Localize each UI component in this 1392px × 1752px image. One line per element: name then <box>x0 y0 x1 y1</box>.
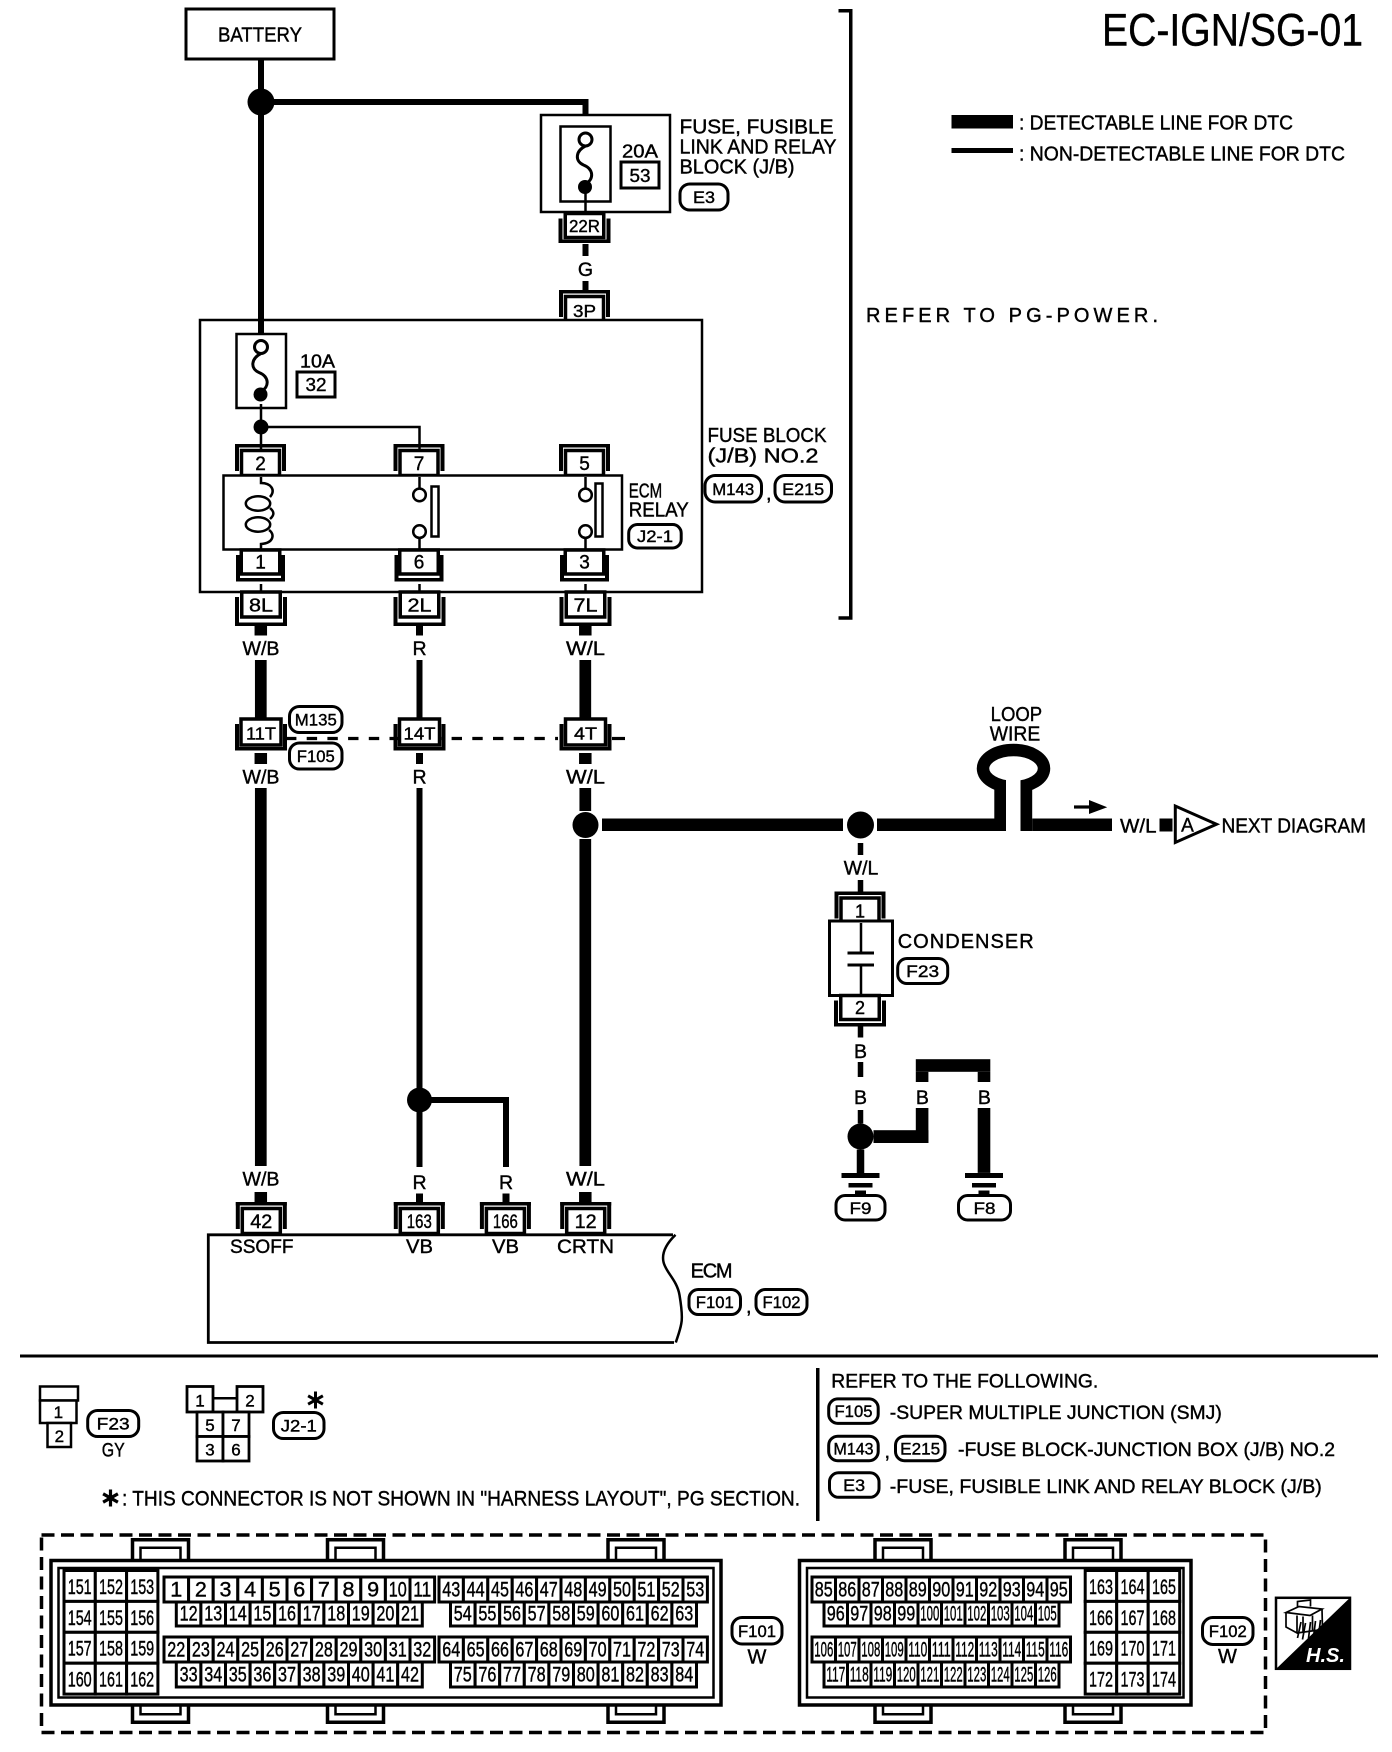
pin row 106-116 <box>812 1637 836 1662</box>
svg-text:CONDENSER: CONDENSER <box>898 931 1034 953</box>
svg-text:110: 110 <box>908 1639 927 1662</box>
svg-text:6: 6 <box>414 553 425 574</box>
svg-text:108: 108 <box>861 1639 880 1662</box>
svg-text:169: 169 <box>1089 1638 1113 1661</box>
svg-text:159: 159 <box>130 1638 154 1661</box>
svg-text:166: 166 <box>493 1212 518 1233</box>
svg-text:35: 35 <box>229 1664 247 1687</box>
svg-text:B: B <box>854 1087 867 1109</box>
wire stub above 3P <box>583 281 589 293</box>
pin row 22-32 <box>164 1637 189 1662</box>
svg-text:51: 51 <box>637 1579 655 1602</box>
bracket refer to pg-power <box>839 11 851 618</box>
svg-text:58: 58 <box>552 1603 570 1626</box>
svg-text:82: 82 <box>626 1664 644 1687</box>
svg-text:-SUPER MULTIPLE JUNCTION (SMJ): -SUPER MULTIPLE JUNCTION (SMJ) <box>890 1403 1222 1424</box>
connector E3 oval <box>680 184 728 210</box>
svg-text:90: 90 <box>932 1579 950 1602</box>
wire B jumper U shape <box>874 1130 929 1143</box>
loop wire <box>983 750 1044 787</box>
svg-text:80: 80 <box>577 1664 595 1687</box>
svg-text:A: A <box>1181 816 1194 837</box>
wire stub below condenser <box>858 1027 864 1038</box>
svg-text:,: , <box>766 483 772 505</box>
pin row 96-105 <box>824 1602 848 1626</box>
svg-text:F105: F105 <box>297 747 335 766</box>
svg-text:B: B <box>916 1087 929 1109</box>
connector 163 <box>394 1202 445 1206</box>
svg-text:13: 13 <box>204 1603 222 1626</box>
connector 2 <box>841 996 880 1020</box>
svg-text:54: 54 <box>454 1603 472 1626</box>
svg-text:20A: 20A <box>622 142 658 162</box>
svg-text:W/L: W/L <box>566 767 605 789</box>
ECM box <box>663 1235 682 1343</box>
connector 3 <box>565 550 604 574</box>
svg-text:B: B <box>978 1087 991 1109</box>
svg-text:6: 6 <box>231 1441 240 1460</box>
svg-text:,: , <box>885 1441 891 1463</box>
svg-text:7L: 7L <box>574 596 598 616</box>
connector 6 <box>400 550 439 574</box>
svg-text:166: 166 <box>1089 1607 1113 1630</box>
pin row 43-53 <box>439 1577 463 1602</box>
svg-text:RELAY: RELAY <box>629 500 689 522</box>
junction node R <box>407 1088 432 1113</box>
svg-text:W/B: W/B <box>243 638 280 660</box>
svg-text:F102: F102 <box>763 1293 801 1312</box>
svg-text:109: 109 <box>885 1639 904 1662</box>
svg-text:103: 103 <box>991 1603 1010 1626</box>
svg-text:91: 91 <box>956 1579 974 1602</box>
svg-text:39: 39 <box>327 1664 345 1687</box>
wire stub 12 <box>579 1192 592 1203</box>
svg-text:118: 118 <box>850 1664 869 1687</box>
svg-text:61: 61 <box>626 1603 644 1626</box>
connector M135 oval <box>290 707 343 733</box>
fuse number 53 box <box>621 162 659 188</box>
svg-text:99: 99 <box>897 1603 915 1626</box>
wire battery bus horizontal <box>261 99 589 105</box>
svg-text:VB: VB <box>492 1236 519 1258</box>
relay contact pins 7-6 <box>418 477 421 488</box>
connector F105 oval <box>829 1399 879 1424</box>
svg-text:F101: F101 <box>738 1622 776 1641</box>
connector J2-1 oval <box>629 525 682 549</box>
svg-text:46: 46 <box>515 1579 533 1602</box>
svg-text:153: 153 <box>130 1576 154 1599</box>
svg-text:12: 12 <box>575 1212 597 1233</box>
svg-text:19: 19 <box>352 1603 370 1626</box>
wire W/L down <box>579 788 591 811</box>
wire stub 8L <box>255 626 267 636</box>
tab <box>1065 1540 1121 1561</box>
svg-text:92: 92 <box>979 1579 997 1602</box>
svg-text:M143: M143 <box>712 480 754 499</box>
svg-text:W/L: W/L <box>1120 816 1157 838</box>
svg-text:-FUSE, FUSIBLE LINK AND RELAY: -FUSE, FUSIBLE LINK AND RELAY BLOCK (J/B… <box>890 1477 1322 1498</box>
connector 2L <box>400 592 439 617</box>
svg-text:R: R <box>412 767 426 789</box>
svg-text:3: 3 <box>220 1579 232 1602</box>
svg-text:10: 10 <box>389 1579 407 1602</box>
svg-text:74: 74 <box>686 1639 704 1662</box>
svg-text:122: 122 <box>944 1664 963 1687</box>
connector E3 oval <box>830 1473 880 1498</box>
svg-text:7: 7 <box>231 1416 240 1435</box>
svg-text:83: 83 <box>651 1664 669 1687</box>
tab <box>608 1540 664 1561</box>
svg-text:81: 81 <box>601 1664 619 1687</box>
svg-text:22R: 22R <box>569 216 600 236</box>
svg-text:FUSE, FUSIBLE: FUSE, FUSIBLE <box>680 117 834 139</box>
svg-text:59: 59 <box>577 1603 595 1626</box>
connector F23 oval <box>88 1411 139 1437</box>
svg-text:LINK AND RELAY: LINK AND RELAY <box>680 137 837 159</box>
svg-text:W/B: W/B <box>243 1169 280 1191</box>
pin row 1-11 <box>164 1577 189 1602</box>
svg-text:(J/B) NO.2: (J/B) NO.2 <box>708 446 819 468</box>
connector 12 <box>560 1202 611 1206</box>
svg-text:14: 14 <box>229 1603 247 1626</box>
wires pins to block edge <box>260 584 263 592</box>
svg-text:171: 171 <box>1152 1638 1176 1661</box>
svg-text:17: 17 <box>303 1603 321 1626</box>
svg-text:106: 106 <box>814 1639 833 1662</box>
svg-text:1: 1 <box>170 1579 182 1602</box>
svg-text:6: 6 <box>293 1579 305 1602</box>
svg-text:12: 12 <box>180 1603 198 1626</box>
wire W/L horizontal <box>602 819 843 832</box>
svg-text:R: R <box>412 1172 426 1194</box>
svg-text:E215: E215 <box>782 480 824 499</box>
svg-text:BLOCK (J/B): BLOCK (J/B) <box>680 157 795 179</box>
separator line <box>20 1355 1378 1358</box>
svg-text:BATTERY: BATTERY <box>218 25 302 47</box>
svg-text:F102: F102 <box>1209 1622 1247 1641</box>
H.S. logo <box>1276 1598 1350 1669</box>
pin row 54-63 <box>451 1602 476 1626</box>
wire stub below 14T <box>416 753 423 764</box>
svg-text:1: 1 <box>255 553 266 574</box>
svg-text:96: 96 <box>827 1603 845 1626</box>
ground F9 <box>842 1173 880 1178</box>
tab <box>608 1703 664 1722</box>
svg-text:45: 45 <box>491 1579 509 1602</box>
junction node W/L <box>573 812 599 838</box>
svg-text:33: 33 <box>180 1664 198 1687</box>
svg-text:7: 7 <box>318 1579 330 1602</box>
arrow <box>1074 805 1092 808</box>
svg-text:W: W <box>748 1647 767 1669</box>
svg-text:60: 60 <box>601 1603 619 1626</box>
junction node battery <box>248 89 275 116</box>
svg-text:16: 16 <box>278 1603 296 1626</box>
connector F101 oval <box>732 1618 782 1645</box>
wire fuse to 22R <box>584 193 587 215</box>
connector 22R <box>565 214 604 238</box>
svg-text:73: 73 <box>662 1639 680 1662</box>
svg-text:62: 62 <box>651 1603 669 1626</box>
svg-text:155: 155 <box>99 1607 123 1630</box>
connector icon <box>1286 1600 1323 1640</box>
svg-text:56: 56 <box>503 1603 521 1626</box>
connector 3P <box>559 290 610 294</box>
svg-text:77: 77 <box>503 1664 521 1687</box>
svg-text:36: 36 <box>253 1664 271 1687</box>
svg-text:W/L: W/L <box>566 1169 605 1191</box>
svg-text:125: 125 <box>1014 1664 1033 1687</box>
svg-text:1: 1 <box>54 1403 63 1422</box>
fuse 20A 53 <box>561 127 611 202</box>
svg-text:53: 53 <box>686 1579 704 1602</box>
svg-text:173: 173 <box>1121 1669 1145 1692</box>
svg-text:156: 156 <box>130 1607 154 1630</box>
svg-text:G: G <box>578 259 593 281</box>
svg-text:1: 1 <box>855 902 865 922</box>
svg-text:151: 151 <box>68 1576 92 1599</box>
wire junction to pin 2 <box>260 427 263 451</box>
svg-text:5: 5 <box>579 454 590 475</box>
svg-text:170: 170 <box>1121 1638 1145 1661</box>
svg-text:43: 43 <box>442 1579 460 1602</box>
svg-text:64: 64 <box>442 1639 460 1662</box>
svg-text:161: 161 <box>99 1669 123 1692</box>
svg-text:M135: M135 <box>295 711 337 730</box>
junction node condenser <box>847 812 874 839</box>
relay contact pins 5-3 <box>584 477 587 488</box>
svg-text:37: 37 <box>278 1664 296 1687</box>
svg-text:21: 21 <box>401 1603 419 1626</box>
svg-text:53: 53 <box>630 166 651 186</box>
wire stub 42 <box>255 1192 267 1203</box>
svg-text:4T: 4T <box>574 724 597 744</box>
svg-text:42: 42 <box>401 1664 419 1687</box>
svg-text:F101: F101 <box>696 1293 734 1312</box>
svg-text:9: 9 <box>367 1579 379 1602</box>
connector M143 oval <box>705 476 762 503</box>
svg-text:152: 152 <box>99 1576 123 1599</box>
svg-text:174: 174 <box>1152 1669 1176 1692</box>
wire battery down <box>258 59 264 95</box>
svg-text:47: 47 <box>540 1579 558 1602</box>
svg-text:14T: 14T <box>404 724 436 744</box>
relay coil <box>261 477 273 497</box>
svg-text:167: 167 <box>1121 1607 1145 1630</box>
svg-text:57: 57 <box>528 1603 546 1626</box>
svg-text:EC-IGN/SG-01: EC-IGN/SG-01 <box>1102 5 1363 56</box>
wire R to 14T <box>417 660 423 720</box>
connector J2-1 symbol <box>213 1397 237 1400</box>
svg-text:101: 101 <box>944 1603 963 1626</box>
svg-text:J2-1: J2-1 <box>637 527 673 546</box>
svg-text:115: 115 <box>1026 1639 1045 1662</box>
tab <box>133 1540 189 1561</box>
svg-text:F23: F23 <box>97 1415 130 1434</box>
tab <box>328 1540 384 1561</box>
svg-text:31: 31 <box>389 1639 407 1662</box>
pin grid 163-174 <box>1085 1571 1117 1602</box>
connector F23 symbol <box>40 1387 78 1401</box>
svg-text:20: 20 <box>376 1603 394 1626</box>
svg-text:11T: 11T <box>246 724 276 744</box>
svg-text:: THIS CONNECTOR IS NOT SHOWN: : THIS CONNECTOR IS NOT SHOWN IN "HARNES… <box>122 1488 800 1511</box>
svg-text:32: 32 <box>413 1639 431 1662</box>
svg-text:NEXT DIAGRAM: NEXT DIAGRAM <box>1222 816 1367 838</box>
svg-text:11: 11 <box>413 1579 431 1602</box>
svg-text:93: 93 <box>1003 1579 1021 1602</box>
svg-text:79: 79 <box>552 1664 570 1687</box>
wire stub 2L <box>416 626 423 636</box>
svg-text:,: , <box>746 1296 752 1318</box>
wire label B with bg <box>910 1082 934 1108</box>
connector 7 <box>394 444 445 448</box>
svg-text:E215: E215 <box>900 1440 940 1459</box>
svg-text:W/L: W/L <box>844 858 879 880</box>
svg-text:105: 105 <box>1038 1603 1057 1626</box>
svg-text:66: 66 <box>491 1639 509 1662</box>
connector 5 <box>559 444 610 448</box>
connector 7L <box>566 592 605 617</box>
svg-text:W/B: W/B <box>243 767 280 789</box>
svg-text:55: 55 <box>478 1603 496 1626</box>
connector 11T <box>241 719 281 745</box>
svg-text:48: 48 <box>564 1579 582 1602</box>
svg-text:163: 163 <box>407 1212 432 1233</box>
wire W/L to next diagram <box>1032 819 1112 832</box>
tab <box>875 1703 931 1722</box>
wire stub to condenser <box>858 880 864 892</box>
pin row 85-95 <box>812 1577 836 1602</box>
wire R down <box>417 1112 423 1167</box>
svg-text:F8: F8 <box>974 1199 996 1218</box>
svg-text:27: 27 <box>290 1639 308 1662</box>
wire stub below node <box>858 843 864 855</box>
svg-text:FUSE BLOCK: FUSE BLOCK <box>708 425 828 447</box>
fuse 10A 32 <box>237 334 287 408</box>
svg-text:87: 87 <box>862 1579 880 1602</box>
svg-text:117: 117 <box>826 1664 845 1687</box>
svg-text:44: 44 <box>467 1579 485 1602</box>
svg-text:B: B <box>854 1041 867 1063</box>
ECM relay box J2-1 <box>224 476 623 550</box>
tab <box>1065 1703 1121 1722</box>
svg-text:2: 2 <box>255 454 266 475</box>
svg-text:160: 160 <box>68 1669 92 1692</box>
wire branch to pin 7 <box>261 427 420 451</box>
wire dash <box>858 1062 864 1077</box>
svg-text:W: W <box>1218 1646 1237 1668</box>
svg-text:30: 30 <box>364 1639 382 1662</box>
svg-text:78: 78 <box>528 1664 546 1687</box>
wire W/B long <box>255 788 267 1166</box>
wire dash <box>858 1110 864 1124</box>
svg-text:164: 164 <box>1121 1576 1145 1599</box>
wire stub 7L <box>579 626 592 636</box>
connector 42 <box>236 1202 287 1206</box>
svg-text:29: 29 <box>340 1639 358 1662</box>
svg-text:88: 88 <box>885 1579 903 1602</box>
tab <box>328 1703 384 1722</box>
svg-text:72: 72 <box>637 1639 655 1662</box>
svg-text:WIRE: WIRE <box>990 723 1041 746</box>
star mark <box>308 1392 323 1409</box>
connector 14T <box>400 719 440 745</box>
legend detectable line <box>952 115 1014 129</box>
svg-text:116: 116 <box>1049 1639 1068 1662</box>
svg-text:123: 123 <box>967 1664 986 1687</box>
svg-text:86: 86 <box>838 1579 856 1602</box>
svg-text:5: 5 <box>205 1416 214 1435</box>
wire battery into 10A fuse <box>258 102 264 334</box>
ground F8 <box>965 1173 1003 1178</box>
node marker square <box>1160 819 1173 832</box>
svg-text:65: 65 <box>467 1639 485 1662</box>
svg-text:68: 68 <box>540 1639 558 1662</box>
svg-text:2: 2 <box>245 1392 254 1411</box>
svg-text:52: 52 <box>662 1579 680 1602</box>
svg-text:10A: 10A <box>300 352 335 372</box>
pin row 12-21 <box>176 1602 201 1626</box>
svg-text:25: 25 <box>241 1639 259 1662</box>
connector E215 oval <box>775 476 832 503</box>
svg-text:CRTN: CRTN <box>557 1236 614 1258</box>
svg-text:97: 97 <box>850 1603 868 1626</box>
wire R long <box>417 788 423 1094</box>
tab <box>875 1540 931 1561</box>
svg-text:E3: E3 <box>693 188 715 207</box>
svg-text:REFER TO THE FOLLOWING.: REFER TO THE FOLLOWING. <box>831 1372 1098 1393</box>
svg-text:76: 76 <box>478 1664 496 1687</box>
svg-text:95: 95 <box>1050 1579 1068 1602</box>
svg-text:3P: 3P <box>573 301 596 321</box>
wire R branch to 166 <box>420 1100 507 1167</box>
svg-text:50: 50 <box>613 1579 631 1602</box>
node A triangle <box>1175 806 1216 843</box>
svg-text:34: 34 <box>204 1664 222 1687</box>
connector 4T <box>566 719 606 745</box>
svg-text:124: 124 <box>991 1664 1010 1687</box>
connector J2-1 oval <box>274 1413 325 1439</box>
junction node ground <box>848 1124 874 1150</box>
svg-text:J2-1: J2-1 <box>281 1417 317 1436</box>
svg-text:104: 104 <box>1014 1603 1033 1626</box>
svg-text:2: 2 <box>55 1427 64 1446</box>
connector F101 oval <box>689 1290 741 1315</box>
legend non-detectable line <box>952 148 1014 153</box>
svg-text:: DETECTABLE LINE FOR DTC: : DETECTABLE LINE FOR DTC <box>1019 113 1293 135</box>
svg-text:GY: GY <box>102 1440 125 1462</box>
svg-text:7: 7 <box>414 454 425 475</box>
svg-text:113: 113 <box>979 1639 998 1662</box>
tab <box>133 1703 189 1722</box>
svg-text:172: 172 <box>1089 1669 1113 1692</box>
svg-text:2: 2 <box>855 998 865 1018</box>
svg-text:40: 40 <box>352 1664 370 1687</box>
note star <box>103 1490 118 1507</box>
dashed harness box <box>42 1535 1266 1733</box>
svg-text:SSOFF: SSOFF <box>230 1236 294 1258</box>
svg-text:85: 85 <box>815 1579 833 1602</box>
svg-text:63: 63 <box>675 1603 693 1626</box>
svg-text:F9: F9 <box>850 1199 872 1218</box>
pin row 117-126 <box>824 1662 848 1687</box>
svg-text:W/L: W/L <box>566 638 605 660</box>
svg-text:ECM: ECM <box>691 1261 733 1283</box>
svg-text:1: 1 <box>195 1392 204 1411</box>
svg-text:: NON-DETECTABLE LINE FOR DTC: : NON-DETECTABLE LINE FOR DTC <box>1019 144 1345 166</box>
svg-text:R: R <box>412 638 426 660</box>
